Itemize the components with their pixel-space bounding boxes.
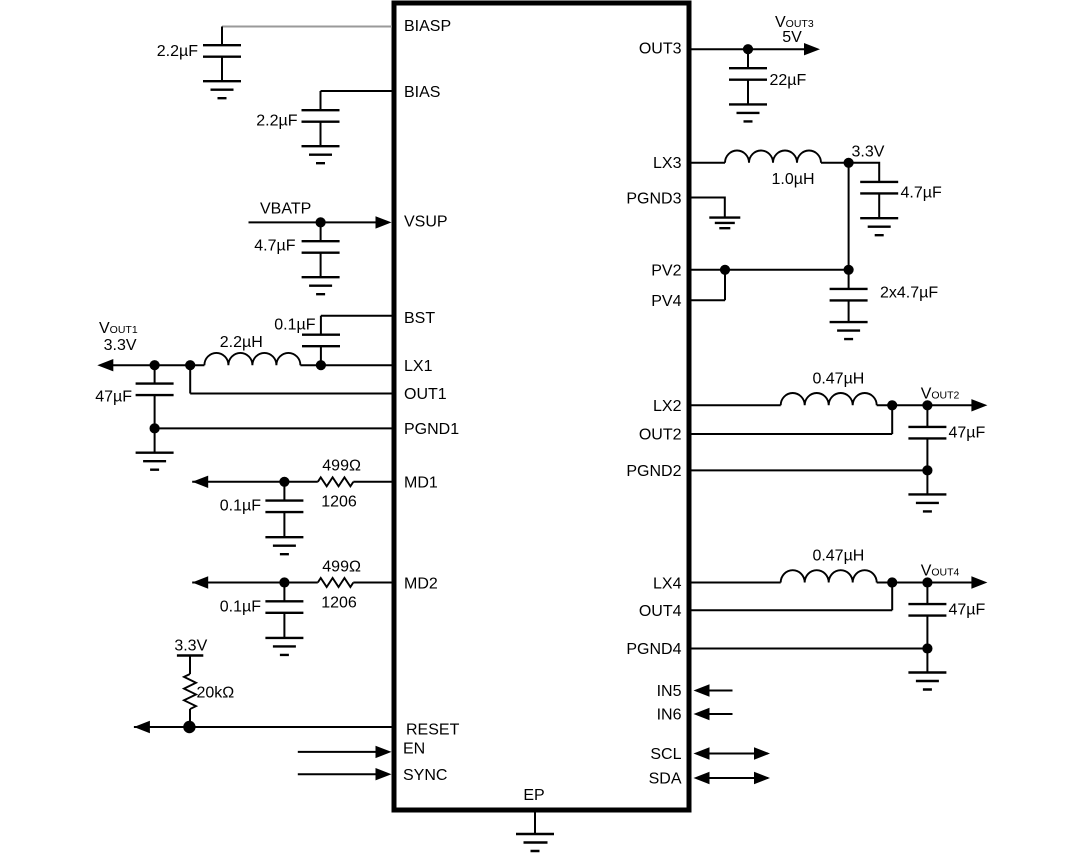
ground (OUT3 cap) [729,104,767,121]
svg-text:2.2µF: 2.2µF [256,113,297,130]
pin label OUT2 [639,427,682,444]
pin label OUT4 [639,603,682,620]
value label 0.1µF (MD1) [220,498,261,515]
arrowhead SDA right [754,772,770,784]
svg-text:EN: EN [403,741,425,758]
svg-text:499Ω: 499Ω [322,558,361,575]
pin label PV4 [651,293,681,310]
arrowhead into EN [376,746,392,758]
resistor 499Ω (MD2) [318,578,354,587]
value label 2.2µF (BIASP) [157,43,198,60]
svg-text:1206: 1206 [321,494,357,511]
net label 3.3V (RESET pullup) [174,638,207,655]
pin label LX4 [653,576,682,593]
svg-text:RESET: RESET [406,722,460,739]
svg-text:LX2: LX2 [653,398,682,415]
capacitor 47µF (VOUT4) [908,604,946,616]
ground (BIAS cap) [302,146,340,163]
arrowhead SCL left [694,747,710,759]
svg-text:VOUT2: VOUT2 [921,386,960,403]
ground (EP) [516,834,554,851]
node junction PGND2 [922,465,932,475]
node junction RESET [183,721,195,733]
pin label BST [404,310,435,327]
ground (MD1 cap) [265,537,303,554]
value label 47µF (VOUT1) [95,389,132,406]
capacitor 22µF (OUT3) [729,68,767,80]
node junction VOUT4 cap [922,577,932,587]
node junction PV4 riser [720,265,730,275]
wire MD1 cap lead [283,482,285,501]
svg-text:4.7µF: 4.7µF [254,238,295,255]
value label 20kΩ [197,685,235,702]
svg-text:0.1µF: 0.1µF [220,498,261,515]
node junction PV2 cap [844,265,854,275]
pin label OUT3 [639,41,682,58]
value label 0.47µH (LX4) [812,548,864,565]
node junction VOUT2 cap [922,400,932,410]
wire RESET [134,726,392,728]
pin label SCL [650,746,681,763]
wire LX3 to inductor [692,162,726,164]
svg-text:2x4.7µF: 2x4.7µF [880,285,938,302]
svg-text:0.47µH: 0.47µH [812,548,864,565]
wire PV2 cap lead [848,270,850,289]
svg-text:1.0µH: 1.0µH [771,171,814,188]
pin label LX2 [653,398,682,415]
ground (BIASP cap) [203,81,241,98]
wire EP to ground [534,812,536,834]
wire inductor to 3.3V node [821,162,849,164]
net label 5V [782,29,802,46]
wire cap to ground (BIAS) [320,122,322,146]
net label VBATP [260,201,311,218]
wire PV4 [692,270,726,301]
svg-text:LX3: LX3 [653,155,682,172]
arrowhead SDA left [694,772,710,784]
ground (PGND2) [908,494,946,511]
value label 4.7µF (VSUP) [254,238,295,255]
node junction OUT3 [743,44,753,54]
wire MD2 cap lead [283,583,285,602]
pin label EN [403,741,425,758]
ground (PV2 cap) [830,322,868,339]
net label 3.3V (VOUT1) [104,337,137,354]
ground (PGND3) [709,218,740,229]
capacitor 47µF (VOUT2) [908,427,946,439]
capacitor 47µF (VOUT1) [136,384,174,396]
wire LX2 to inductor [692,404,781,406]
wire OUT1 [190,365,392,393]
value label 499Ω (MD1) [322,458,361,475]
wire MD1 cap to ground [283,512,285,537]
wire VOUT4 cap lead [926,583,928,605]
supply bar 3.3V [177,654,203,656]
svg-text:OUT3: OUT3 [639,41,682,58]
wire BST cap lead [320,316,322,335]
pin label IN6 [657,707,682,724]
arrowhead VOUT4 (right) [971,576,987,588]
svg-text:LX4: LX4 [653,576,682,593]
arrowhead SCL right [754,747,770,759]
arrowhead MD2 (left) [192,576,208,588]
value label 2x4.7µF [880,285,938,302]
svg-text:3.3V: 3.3V [174,638,207,655]
IC U1 body [394,3,689,810]
wire OUT2 [692,405,893,434]
wire SCL [696,753,768,755]
inductor 0.47µH (LX4) [781,570,877,582]
svg-text:BIAS: BIAS [404,84,440,101]
wire OUT3 [692,48,809,50]
ground (PGND4) [908,673,946,690]
pin label MD1 [404,475,438,492]
arrowhead IN5 (left) [694,684,710,696]
svg-text:MD1: MD1 [404,475,438,492]
wire SYNC [298,773,379,775]
wire EN [298,751,379,753]
pin label SYNC [403,767,447,784]
wire PGND4 [692,648,928,650]
svg-text:VSUP: VSUP [404,214,448,231]
svg-text:3.3V: 3.3V [104,337,137,354]
svg-text:PV2: PV2 [651,263,681,280]
capacitor 4.7µF (VSUP) [302,241,340,253]
net label VOUT2 [921,386,960,403]
wire supply to resistor [189,656,191,675]
svg-text:OUT4: OUT4 [639,603,682,620]
wire BIAS cap lead [320,91,322,110]
arrowhead VOUT1 (left) [97,359,113,371]
wire PGND4 to ground [926,649,928,673]
node junction MD1 [279,477,289,487]
svg-text:BST: BST [404,310,435,327]
arrowhead RESET (left) [134,721,150,733]
wire resistor to RESET [189,709,191,727]
value label 2.2µH [220,334,263,351]
svg-text:VBATP: VBATP [260,201,311,218]
wire PGND1 to ground [154,428,156,452]
net label VOUT1 [99,320,138,337]
value label 4.7µF (LX3) [901,185,942,202]
node junction OUT2 riser [887,400,897,410]
resistor 499Ω (MD1) [318,477,354,486]
inductor 0.47µH (LX2) [781,393,877,405]
net label 3.3V (LX3) [852,144,885,161]
wire inductor to VOUT1 arrow [110,364,204,366]
pin label LX3 [653,155,682,172]
svg-text:22µF: 22µF [770,72,807,89]
svg-text:2.2µH: 2.2µH [220,334,263,351]
wire MD2 cap to ground [283,613,285,638]
value label 0.1µF (MD2) [220,598,261,615]
arrowhead MD1 (left) [192,476,208,488]
svg-text:47µF: 47µF [949,602,986,619]
svg-text:PV4: PV4 [651,293,681,310]
value label 1206 (MD2) [321,594,357,611]
wire junction to cap (VSUP) [320,222,322,241]
wire PV2 [692,269,849,271]
svg-text:PGND2: PGND2 [626,463,681,480]
node junction PGND1 [150,423,160,433]
capacitor 0.1µF (MD1) [265,501,303,512]
pin label RESET [406,722,460,739]
wire cap to PGND4 [926,616,928,649]
wire inductor to VOUT2 arrow [877,404,975,406]
ground (LX3 cap) [860,218,898,235]
wire BST cap to LX1 [320,346,322,365]
node junction LX3 3.3V [844,158,854,168]
wire cap to ground (VSUP) [320,253,322,277]
wire cap to ground (LX3) [878,193,880,218]
pin label PV2 [651,263,681,280]
arrowhead into SYNC [376,768,392,780]
svg-text:1206: 1206 [321,594,357,611]
wire PGND2 [692,469,928,471]
value label 22µF [770,72,807,89]
ground (PGND1) [136,453,174,470]
node junction OUT1 riser [185,360,195,370]
pin label VSUP [404,214,448,231]
arrowhead VOUT2 (right) [971,399,987,411]
resistor 20kΩ (RESET pullup) [184,674,196,709]
wire OUT3 cap lead [747,49,749,68]
wire cap to ground (PV2) [848,300,850,322]
wire BIASP (gray) [222,26,392,28]
svg-text:47µF: 47µF [95,389,132,406]
value label 2.2µF (BIAS) [256,113,297,130]
svg-text:SYNC: SYNC [403,767,447,784]
svg-text:2.2µF: 2.2µF [157,43,198,60]
capacitor 2.2µF (BIAS) [302,110,340,122]
value label 1206 (MD1) [321,494,357,511]
svg-text:PGND4: PGND4 [626,641,681,658]
wire LX1 to inductor [300,364,392,366]
value label 499Ω (MD2) [322,558,361,575]
wire inductor to VOUT4 arrow [877,582,975,584]
value label 0.1µF (BST) [274,317,315,334]
svg-text:0.47µH: 0.47µH [812,371,864,388]
node junction 47µF cap (VOUT1) [150,360,160,370]
svg-text:PGND1: PGND1 [404,421,459,438]
wire cap to PGND2 [926,438,928,470]
svg-text:SDA: SDA [649,771,682,788]
wire IN6 [696,713,733,715]
svg-text:4.7µF: 4.7µF [901,185,942,202]
svg-text:OUT2: OUT2 [639,427,682,444]
arrowhead IN6 (left) [694,708,710,720]
svg-text:20kΩ: 20kΩ [197,685,235,702]
capacitor 4.7µF (LX3) [860,182,898,194]
ground (MD2 cap) [265,638,303,655]
net label VOUT4 [921,563,960,580]
wire 3.3V node to cap [849,163,880,182]
wire LX4 to inductor [692,582,781,584]
pin label PGND1 [404,421,459,438]
svg-text:499Ω: 499Ω [322,458,361,475]
pin label SDA [649,771,682,788]
wire BIAS [321,90,393,92]
wire MD1 [192,481,392,483]
svg-text:VOUT4: VOUT4 [921,563,960,580]
svg-text:0.1µF: 0.1µF [274,317,315,334]
pin label EP [523,787,544,804]
value label 0.47µH (LX2) [812,371,864,388]
wire BIASP cap lead [221,27,223,46]
wire OUT4 [692,583,893,611]
capacitor 0.1µF (MD2) [265,601,303,613]
svg-text:SCL: SCL [650,746,681,763]
arrowhead into VSUP [376,216,392,228]
pin label MD2 [404,576,438,593]
pin label PGND4 [626,641,681,658]
wire IN5 [696,690,733,692]
pin label OUT1 [404,386,447,403]
svg-text:EP: EP [523,787,544,804]
node junction PGND4 [922,643,932,653]
wire VBATP to VSUP [249,221,380,223]
inductor 1.0µH [725,151,821,163]
wire SDA [696,777,768,779]
svg-text:5V: 5V [782,29,802,46]
inductor 2.2µH [204,353,300,365]
svg-text:OUT1: OUT1 [404,386,447,403]
svg-text:VOUT1: VOUT1 [99,320,138,337]
pin label LX1 [404,358,433,375]
node junction OUT4 riser [887,577,897,587]
value label 47µF (VOUT2) [949,425,986,442]
svg-text:PGND3: PGND3 [626,191,681,208]
svg-text:IN5: IN5 [657,683,682,700]
pin label BIAS [404,84,440,101]
svg-text:LX1: LX1 [404,358,433,375]
svg-text:BIASP: BIASP [404,18,451,35]
pin label BIASP [404,18,451,35]
capacitor 0.1µF (BST) [302,335,340,347]
svg-text:47µF: 47µF [949,425,986,442]
svg-text:0.1µF: 0.1µF [220,598,261,615]
svg-text:IN6: IN6 [657,707,682,724]
wire PGND1 [155,427,392,429]
ground (VSUP cap) [302,277,340,294]
net label VOUT3 [775,14,814,31]
wire MD2 [192,582,392,584]
wire cap to PGND1 [154,395,156,428]
pin label IN5 [657,683,682,700]
node junction BST/LX1 [316,360,326,370]
pin label PGND2 [626,463,681,480]
wire VOUT2 cap lead [926,405,928,427]
wire cap to ground (OUT3) [747,80,749,105]
wire 3.3V bus down to PV2 [848,163,850,270]
wire cap to ground (BIASP) [221,57,223,81]
wire PGND3 [692,198,725,218]
value label 1.0µH [771,171,814,188]
svg-text:MD2: MD2 [404,576,438,593]
arrowhead VOUT3 (right) [804,43,820,55]
wire VOUT1 node to cap [154,365,156,383]
pin label PGND3 [626,191,681,208]
value label 47µF (VOUT4) [949,602,986,619]
wire PGND2 to ground [926,470,928,494]
node junction VBATP [316,217,326,227]
capacitor 2.2µF (BIASP) [203,45,241,57]
capacitor 2x4.7µF (PV2/PV4) [830,289,868,301]
node junction MD2 [279,577,289,587]
wire BST [321,315,392,317]
svg-text:3.3V: 3.3V [852,144,885,161]
